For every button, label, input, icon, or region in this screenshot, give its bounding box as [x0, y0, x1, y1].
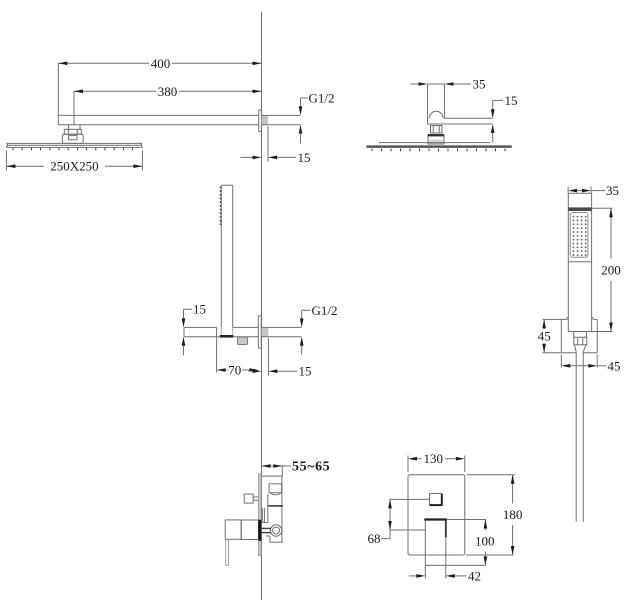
- svg-text:380: 380: [158, 84, 178, 99]
- dim 70: [217, 327, 259, 377]
- hose: [576, 352, 583, 522]
- spray face dashes side: [220, 187, 222, 226]
- hose nut front: [574, 337, 587, 352]
- dim 15 holder left: [182, 302, 206, 356]
- ball housing A: [62, 134, 83, 143]
- dim 68: [368, 499, 430, 546]
- dim 42: [409, 565, 481, 583]
- arm connector A: [64, 125, 81, 135]
- hand shower side view: [221, 185, 232, 336]
- dim 45 horizontal: [561, 355, 620, 374]
- nozzles front: [372, 149, 505, 152]
- spray dots: [573, 216, 587, 256]
- handle front: [424, 520, 447, 566]
- lever side: [225, 520, 241, 539]
- pipe lines A: [262, 114, 301, 116]
- mixer body side: [262, 476, 282, 542]
- spray face front: [570, 213, 588, 258]
- svg-text:400: 400: [151, 56, 171, 71]
- ball dome front: [429, 111, 443, 118]
- hand shower outlet end: [220, 335, 233, 338]
- nozzles A: [13, 148, 133, 151]
- cartridge side: [262, 494, 283, 522]
- supply lines side: [262, 528, 271, 532]
- svg-text:15: 15: [505, 93, 518, 108]
- dim 380: [74, 84, 262, 125]
- lever grip side: [226, 539, 229, 565]
- svg-text:15: 15: [298, 150, 311, 165]
- wall flange E: [258, 474, 261, 556]
- nut front: [431, 126, 443, 134]
- shower head plate A: [6, 143, 142, 147]
- svg-text:15: 15: [193, 302, 206, 317]
- diverter knob side: [244, 494, 258, 503]
- svg-text:45: 45: [608, 358, 621, 373]
- dim 15 front: [491, 93, 518, 143]
- top outlet port side: [269, 484, 282, 495]
- svg-text:200: 200: [601, 262, 621, 277]
- wall flange A: [259, 110, 262, 132]
- label G1/2 top: [299, 91, 335, 144]
- wall flange C: [258, 316, 261, 349]
- svg-text:45: 45: [538, 329, 551, 344]
- dim 130: [408, 451, 465, 472]
- dim 55~65: [262, 460, 331, 477]
- svg-text:15: 15: [299, 364, 312, 379]
- svg-text:180: 180: [503, 507, 523, 522]
- holder cup: [238, 337, 248, 344]
- svg-text:70: 70: [228, 363, 241, 378]
- hand shower front view: head: [568, 193, 591, 331]
- svg-text:35: 35: [473, 77, 486, 92]
- dim 15 holder right: [249, 338, 312, 379]
- dim 250X250: [6, 151, 142, 174]
- wall line: [261, 12, 263, 600]
- svg-text:250X250: 250X250: [50, 159, 98, 174]
- diverter button front: [430, 493, 443, 505]
- dim 400: [58, 56, 261, 71]
- dark band front: [568, 207, 591, 211]
- ball base front: [428, 135, 444, 145]
- dim 180: [466, 475, 522, 555]
- svg-text:42: 42: [468, 568, 481, 583]
- svg-text:35: 35: [606, 183, 619, 198]
- dim 15 top view: [241, 126, 311, 165]
- rain head front view: arm bar: [428, 84, 445, 124]
- svg-text:100: 100: [475, 534, 495, 549]
- dim 35 front: [411, 77, 486, 92]
- dim 35 hand shower: [568, 183, 619, 198]
- bottom outlet circle side: [270, 525, 281, 536]
- head plate front: [366, 143, 511, 148]
- dim 45 vertical: [538, 319, 562, 352]
- wall pipe hatch C: [262, 328, 269, 337]
- dim 200: [592, 208, 621, 331]
- holder bar: [184, 327, 259, 336]
- pipe lines C: [262, 326, 302, 328]
- dim 100: [446, 520, 495, 566]
- svg-text:55~65: 55~65: [292, 460, 330, 475]
- handle hub side: [241, 520, 259, 540]
- shower arm (side view): [58, 63, 259, 124]
- svg-text:130: 130: [424, 451, 444, 466]
- mixer plate front: [408, 475, 465, 555]
- wall pipe hatch A: [262, 116, 268, 125]
- mixer body bottom side: [266, 536, 283, 542]
- svg-text:G1/2: G1/2: [312, 303, 338, 318]
- holder square front: [561, 317, 597, 353]
- svg-text:68: 68: [368, 531, 381, 546]
- handle taper front: [574, 332, 587, 338]
- svg-text:G1/2: G1/2: [309, 91, 335, 106]
- arm band front: [428, 118, 493, 124]
- label G1/2 middle: [300, 303, 338, 355]
